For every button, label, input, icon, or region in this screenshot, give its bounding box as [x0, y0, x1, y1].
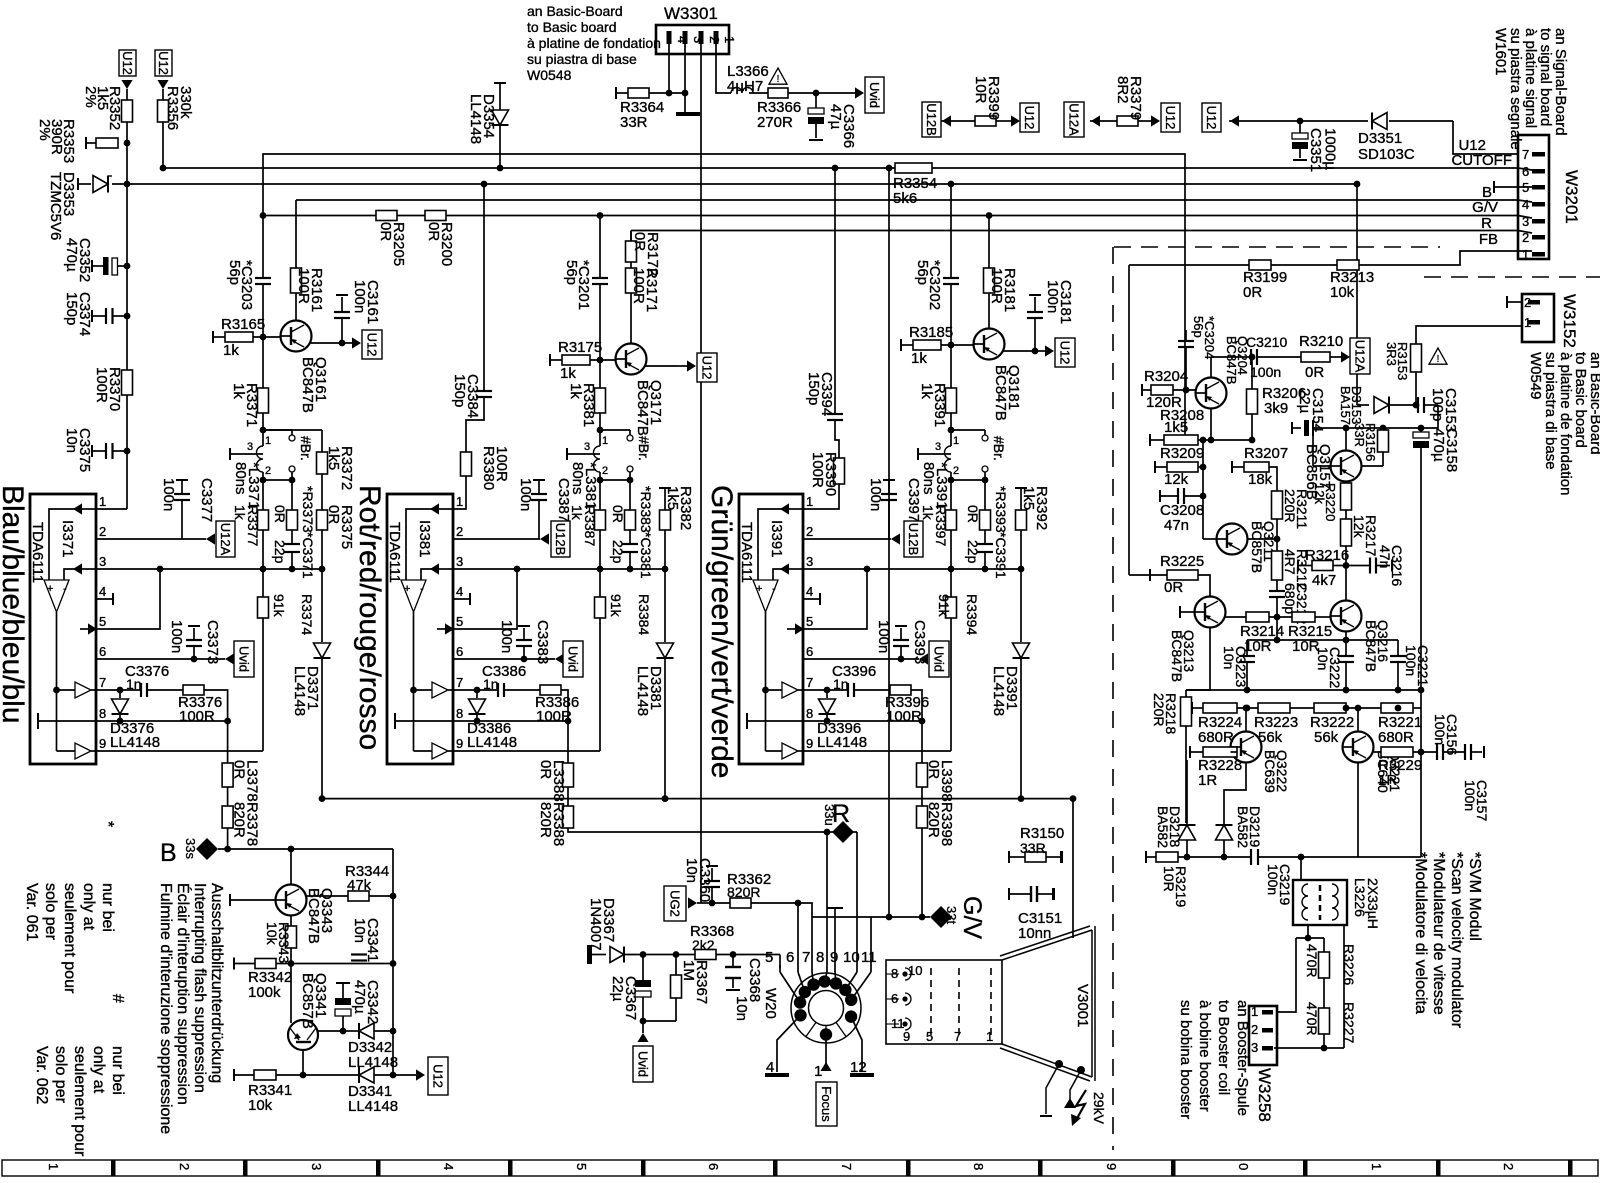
- wire pin7 green: [803, 689, 848, 691]
- wire G/V bus y215: [263, 215, 1518, 217]
- svg-text:100R: 100R: [809, 452, 826, 488]
- wire pin6 red: [453, 658, 555, 660]
- svg-text:100R: 100R: [988, 268, 1005, 304]
- wire Q3343 collector: [290, 849, 292, 885]
- svg-text:2: 2: [806, 524, 813, 539]
- wire D3353 left stub: [77, 178, 79, 190]
- svg-text:LL4148: LL4148: [817, 734, 867, 751]
- wire R3211 to Q3211 collector: [1276, 519, 1278, 551]
- wire pin9 blue: [96, 750, 263, 752]
- wire L3226 top lead: [1300, 857, 1302, 880]
- svg-text:R3175: R3175: [558, 339, 602, 356]
- capacitor C3377 100n: [181, 500, 183, 539]
- wire to CRT pin5: [779, 955, 781, 969]
- wire pin2 green: [803, 538, 891, 540]
- svg-text:47µ: 47µ: [827, 104, 844, 130]
- arrow to Uvid top: [855, 87, 864, 98]
- net label U12B green: [904, 521, 923, 557]
- svg-text:2: 2: [1251, 1022, 1258, 1037]
- wire pin3 node row green: [803, 568, 1021, 570]
- wire pin9 green: [803, 750, 951, 752]
- svg-text:10k: 10k: [1330, 284, 1355, 301]
- svg-text:C3397: C3397: [905, 478, 922, 522]
- resistor R3341 10k: [233, 1069, 235, 1081]
- wire L3378 column bottom: [227, 828, 229, 849]
- diode D3351 SD103C: [1371, 113, 1373, 130]
- resistor R3354 5k6 on CUTOFF bus: [895, 163, 932, 173]
- capacitor C3352 470u: [91, 260, 93, 272]
- node C3368: [730, 951, 737, 958]
- resistor R3384 91k: [599, 569, 601, 597]
- ruler separators: [111, 1160, 116, 1176]
- svg-text:R3384: R3384: [636, 594, 652, 635]
- svg-text:470µ: 470µ: [63, 238, 80, 272]
- wire x857 to CRT pin10: [856, 832, 858, 965]
- wire pin8 green: [803, 720, 922, 722]
- wire x1073 to CRT funnel: [1072, 799, 1074, 938]
- svg-text:su piastra di base: su piastra di base: [527, 51, 637, 67]
- svg-text:U12B: U12B: [906, 523, 921, 556]
- wire pin6 green: [803, 658, 919, 660]
- resistor R3373 0R: [291, 480, 293, 510]
- svg-text:LL4148: LL4148: [467, 94, 484, 144]
- capacitor C3397 100n: [888, 500, 890, 539]
- wire Q3157 collector top: [1345, 428, 1347, 451]
- svg-text:10: 10: [908, 963, 922, 978]
- svg-text:W3258: W3258: [1255, 1068, 1274, 1122]
- resistor R3224 680R: [1191, 702, 1193, 714]
- svg-text:U12A: U12A: [1353, 340, 1368, 373]
- svg-text:Focus: Focus: [819, 1086, 834, 1122]
- svg-text:Fulmine d'interuzione soppress: Fulmine d'interuzione soppressione: [157, 883, 174, 1134]
- svg-text:9: 9: [99, 736, 106, 751]
- capacitor C3393 100n: [898, 656, 905, 663]
- svg-text:nur bei: nur bei: [99, 883, 116, 932]
- svg-text:22µ: 22µ: [609, 976, 626, 1002]
- svg-text:1k: 1k: [560, 365, 576, 382]
- wire Q3222 emitter down: [1224, 763, 1246, 826]
- capacitor C3216 47n: [1346, 565, 1370, 567]
- svg-text:12k: 12k: [1312, 483, 1327, 504]
- resistor R3377 1k: [262, 480, 264, 510]
- svg-text:U12B: U12B: [553, 523, 568, 556]
- svg-text:0R: 0R: [1243, 284, 1262, 301]
- connector W3201: [1518, 135, 1549, 259]
- svg-text:seulement pour: seulement pour: [71, 1046, 88, 1157]
- svg-text:6: 6: [806, 644, 813, 659]
- resistor R3342 100k: [233, 958, 235, 970]
- transformer L3226 2X33uH: [1293, 880, 1347, 925]
- svg-text:8: 8: [971, 1163, 986, 1170]
- svg-text:10n: 10n: [1315, 647, 1331, 670]
- svg-text:10n: 10n: [63, 428, 80, 453]
- svg-text:*Modulatore di velocita: *Modulatore di velocita: [1412, 852, 1429, 1014]
- transistor Q3222 BC639: [1231, 732, 1262, 763]
- svg-text:47n: 47n: [1164, 517, 1189, 534]
- svg-text:2%: 2%: [36, 119, 53, 141]
- diode D3219 BA582: [1216, 824, 1233, 826]
- svg-text:100R: 100R: [886, 708, 922, 725]
- svg-text:1: 1: [806, 494, 813, 509]
- resistor R3150 33R: [1008, 851, 1010, 863]
- wire B diamond to right: [218, 848, 393, 850]
- svg-text:BA157: BA157: [1338, 386, 1353, 425]
- node x889/CUTOFF: [886, 165, 893, 172]
- svg-text:C3383: C3383: [534, 620, 551, 664]
- arrow UG2: [688, 897, 697, 908]
- arrow Uvid green: [919, 653, 928, 664]
- svg-text:C3377: C3377: [198, 478, 215, 522]
- IC block I3391 TDA6111 green: [739, 494, 803, 764]
- wire pin7 blue: [96, 689, 141, 691]
- node x163/y168: [160, 165, 167, 172]
- svg-text:Var. 061: Var. 061: [23, 883, 40, 942]
- svg-text:0R: 0R: [1305, 364, 1324, 381]
- svg-text:LL4148: LL4148: [110, 734, 160, 751]
- svg-text:R3210: R3210: [1299, 333, 1343, 350]
- arrow into U12B: [942, 115, 951, 126]
- svg-text:U12B: U12B: [924, 103, 939, 136]
- CRT socket spokes: [806, 1022, 816, 1036]
- resistor R3379 8R2: [1117, 116, 1138, 126]
- wire x127 to TDA pin1: [126, 122, 128, 370]
- svg-text:U12: U12: [120, 51, 135, 75]
- wire U12 col x127: [126, 89, 128, 100]
- svg-text:100R: 100R: [93, 367, 110, 403]
- wire red emitter: [645, 365, 677, 367]
- resistor R3211 220R: [1272, 491, 1283, 519]
- svg-text:-: -: [420, 583, 424, 595]
- svg-text:10R: 10R: [972, 76, 989, 104]
- svg-text:10n: 10n: [733, 996, 750, 1021]
- svg-text:CUTOFF: CUTOFF: [1451, 152, 1512, 169]
- wire pin9 lead up: [834, 908, 836, 965]
- power label U12 flash: [428, 1057, 448, 1095]
- svg-text:R3204: R3204: [1144, 368, 1188, 385]
- connector W3258: [1249, 1006, 1277, 1065]
- resistor R3375 0R: [321, 474, 323, 510]
- svg-text:5: 5: [765, 949, 773, 966]
- wire R3227 to pin3 line: [1323, 1034, 1325, 1048]
- svg-text:#Br.: #Br.: [991, 436, 1007, 461]
- svg-text:100n: 100n: [1462, 780, 1478, 811]
- wire R3210 arrow: [1330, 356, 1341, 358]
- svg-text:1: 1: [46, 1163, 61, 1170]
- wire x1357 down: [1356, 184, 1358, 405]
- net label U12B top: [922, 102, 941, 137]
- diamond node G/V: [930, 906, 952, 928]
- svg-text:3: 3: [935, 441, 941, 453]
- svg-text:0R: 0R: [610, 505, 626, 523]
- resistor R3397 1k: [950, 480, 952, 510]
- svg-text:TDA6111: TDA6111: [29, 522, 46, 583]
- CRT socket inner circle: [809, 991, 844, 1026]
- wire y405 D3153: [1357, 404, 1369, 406]
- wire R3208 row right: [1211, 439, 1252, 441]
- svg-text:680R: 680R: [1378, 729, 1414, 746]
- resistor R3394 91k: [950, 569, 952, 597]
- wire Q3204 collector: [1210, 357, 1212, 378]
- node R diamond: [824, 829, 831, 836]
- svg-text:9: 9: [1104, 1163, 1119, 1170]
- resistor R3156 33R: [1380, 425, 1387, 432]
- node C3158 top: [1418, 425, 1425, 432]
- wire D3351 to W3201 pin7: [1453, 121, 1518, 154]
- wire green cap column: [950, 284, 952, 345]
- wire pin6 lead up: [797, 903, 799, 965]
- svg-text:1N4007: 1N4007: [587, 898, 604, 951]
- resistor R3208 1k5: [1149, 434, 1151, 446]
- svg-text:2: 2: [953, 465, 959, 477]
- node green base: [948, 342, 955, 349]
- CRT pin12 lead: [851, 1017, 862, 1072]
- node blue base: [260, 334, 267, 341]
- transistor Q3181 BC847B: [974, 329, 1005, 360]
- capacitor C3374 150p: [91, 310, 93, 322]
- svg-text:*R3393: *R3393: [993, 486, 1009, 533]
- svg-text:100n: 100n: [1403, 645, 1419, 676]
- svg-text:1k: 1k: [567, 383, 584, 399]
- wire to coil blue: [262, 413, 264, 430]
- resistor R3172 0R: [626, 241, 637, 262]
- svg-text:W0549: W0549: [1527, 352, 1544, 400]
- inductor L3388 0R: [567, 721, 569, 763]
- wire Q3341 emitter right: [317, 1030, 342, 1032]
- svg-text:100n: 100n: [1432, 714, 1448, 745]
- svg-text:8: 8: [806, 706, 813, 721]
- node D3371 bottom: [319, 795, 326, 802]
- resistor R3393 0R: [984, 480, 986, 510]
- wire R3374 to pin9: [262, 618, 264, 751]
- dashed boundary y247: [1114, 246, 1440, 248]
- svg-text:22p: 22p: [610, 540, 626, 564]
- capacitor C3203 56p: [255, 277, 271, 279]
- resistor R3382 1k5: [659, 487, 671, 489]
- svg-text:#Br.: #Br.: [298, 436, 314, 461]
- wire blue cap column: [262, 284, 264, 337]
- svg-text:0R: 0R: [631, 232, 648, 251]
- resistor R3380 100R: [466, 397, 484, 452]
- warning triangle near R3366: [769, 68, 787, 84]
- svg-text:100k: 100k: [248, 984, 281, 1001]
- vertical x1203: [1202, 440, 1204, 539]
- svg-text:1: 1: [456, 494, 463, 509]
- svg-text:820R: 820R: [537, 802, 554, 838]
- svg-text:820R: 820R: [925, 802, 942, 838]
- svg-text:C3373: C3373: [204, 620, 221, 664]
- wire C3153 corner down: [1421, 405, 1438, 428]
- arrow into U12 box4: [1151, 115, 1160, 126]
- resistor R3204 120R: [1141, 384, 1143, 396]
- 29kV arrow: [1064, 1098, 1076, 1108]
- CRT pin4 lead: [777, 1015, 801, 1072]
- wire pin11 lead up: [870, 917, 872, 965]
- CRT pin1 lead: [825, 1035, 827, 1067]
- svg-text:5: 5: [574, 1163, 589, 1170]
- svg-text:R3225: R3225: [1160, 553, 1204, 570]
- power label U12 box 5: [1202, 103, 1221, 132]
- resistor R3370: [122, 370, 133, 395]
- stub W3201 pin5: [1493, 181, 1495, 193]
- svg-text:-: -: [772, 583, 776, 595]
- node pin4/R3364: [666, 90, 673, 97]
- svg-text:3: 3: [584, 441, 590, 453]
- arrow U12B green: [891, 533, 900, 544]
- svg-text:R3227: R3227: [1341, 1002, 1357, 1043]
- stub R3353 left: [85, 137, 87, 149]
- resistor R3209 12k: [1154, 461, 1156, 473]
- svg-text:*R3373: *R3373: [300, 486, 316, 533]
- wire pin5 green: [803, 569, 867, 629]
- svg-text:3: 3: [309, 1163, 324, 1170]
- node coil bottom blue: [260, 477, 267, 484]
- wire Q3343 emitter: [290, 916, 292, 927]
- wires I3381 internal: [430, 503, 439, 514]
- svg-text:R3207: R3207: [1244, 445, 1288, 462]
- zener D3353 TZMC5V6: [107, 176, 109, 193]
- resistor R3368 2k2: [695, 950, 716, 960]
- svg-text:3: 3: [247, 441, 253, 453]
- svg-text:LL4148: LL4148: [291, 666, 308, 716]
- W3201 pin bars and numbers: [1532, 152, 1545, 157]
- svg-text:150p: 150p: [63, 292, 80, 325]
- svg-text:10k: 10k: [248, 1097, 273, 1114]
- svg-text:*Scan velocity modulator: *Scan velocity modulator: [1448, 852, 1465, 1029]
- arrow into U12A: [1091, 115, 1100, 126]
- svg-text:1: 1: [953, 435, 959, 447]
- svg-text:100n: 100n: [351, 280, 368, 313]
- wires I3371 internal: [73, 503, 82, 514]
- svg-text:470µ: 470µ: [351, 980, 368, 1014]
- diode D3341 LL4148: [358, 1067, 360, 1083]
- svg-text:Uvid: Uvid: [566, 646, 581, 672]
- terminal bar left of D3367: [587, 945, 592, 964]
- net label Uvid bottom: [633, 1046, 653, 1082]
- svg-text:G/V: G/V: [958, 896, 986, 939]
- transistor Q3213 BC847B: [1195, 597, 1226, 628]
- svg-text:5k6: 5k6: [893, 190, 917, 207]
- resistor R3220 12k: [1345, 482, 1347, 484]
- node Q3343 collector: [288, 846, 295, 853]
- svg-text:7: 7: [954, 1029, 961, 1044]
- svg-text:3: 3: [456, 554, 463, 569]
- power label U12 box 3: [1020, 103, 1039, 132]
- wire x163: [162, 89, 164, 100]
- wire U12B-R3399: [951, 120, 975, 122]
- svg-text:an Basic-Board: an Basic-Board: [527, 3, 623, 19]
- svg-text:33R: 33R: [1352, 423, 1367, 447]
- net label U12A blue: [216, 521, 235, 557]
- wire W3301 pin1: [716, 44, 731, 93]
- svg-text:Uvid: Uvid: [237, 646, 252, 672]
- svg-text:-: -: [63, 583, 67, 595]
- svg-text:8: 8: [816, 949, 824, 966]
- wire x827 to CRT pin8: [826, 832, 828, 965]
- wire R3217 to R3216 row: [1345, 546, 1347, 598]
- svg-text:1n: 1n: [483, 676, 499, 692]
- wire R bus y231: [630, 231, 632, 253]
- resistor R3399 10R: [975, 116, 996, 126]
- electrolytic C3367 22u: [642, 955, 644, 981]
- svg-text:only at: only at: [80, 883, 97, 931]
- svg-text:1k5: 1k5: [664, 486, 681, 510]
- svg-text:I3381: I3381: [416, 520, 433, 558]
- capacitor C3371 22p: [291, 530, 293, 544]
- svg-text:1k: 1k: [230, 383, 247, 399]
- wire L3226 right coil down: [1343, 925, 1345, 1048]
- svg-text:1: 1: [1524, 315, 1531, 330]
- svg-text:!: !: [1437, 354, 1440, 365]
- power label U12 blue emitter: [362, 330, 382, 359]
- wire R3366 to Uvid: [788, 92, 855, 94]
- svg-text:1k5: 1k5: [1164, 419, 1188, 436]
- svg-text:2: 2: [707, 36, 722, 43]
- svg-text:C3387: C3387: [555, 478, 572, 522]
- warning triangle R3153: [1429, 348, 1447, 364]
- svg-text:LL4148: LL4148: [348, 1098, 398, 1115]
- svg-text:56p: 56p: [563, 260, 580, 285]
- capacitor C3396 1n: [847, 683, 849, 697]
- resistor R3219 10R: [1156, 852, 1178, 862]
- W3301 pin bars: [667, 31, 672, 44]
- svg-text:6: 6: [456, 644, 463, 659]
- capacitor C3204 56p: [1183, 387, 1190, 394]
- svg-text:U12: U12: [365, 333, 380, 357]
- dashed boundary y277: [1424, 276, 1600, 278]
- svg-text:1M: 1M: [680, 960, 697, 981]
- svg-text:0R: 0R: [272, 505, 288, 523]
- ground W3301 pin3: [676, 112, 700, 116]
- wire R3394 to pin9: [950, 618, 952, 751]
- svg-text:29kV: 29kV: [1091, 1092, 1107, 1125]
- svg-text:LL4148: LL4148: [634, 666, 651, 716]
- svg-text:12k: 12k: [1351, 515, 1367, 539]
- arrow U12A blue: [206, 533, 215, 544]
- arrow into U12 box3: [1011, 115, 1020, 126]
- svg-text:150p: 150p: [451, 374, 468, 407]
- svg-text:6: 6: [706, 1163, 721, 1170]
- svg-text:Blau/blue/bleu/blu: Blau/blue/bleu/blu: [0, 485, 29, 724]
- wire pin7 red: [453, 689, 498, 691]
- svg-text:+: +: [47, 583, 53, 595]
- svg-text:100R: 100R: [179, 708, 215, 725]
- node coil bottom red: [597, 477, 604, 484]
- resistor R3229 1R: [1374, 751, 1382, 753]
- resistor R3206 3k9: [1247, 389, 1258, 414]
- wire Q3216 collector: [1345, 598, 1347, 601]
- bridge contacts #Br green: [951, 429, 985, 431]
- net label Uvid red: [563, 641, 583, 677]
- wire W3258 pin3: [1274, 1047, 1344, 1049]
- svg-text:18k: 18k: [1248, 471, 1273, 488]
- wire Q3221 emitter down: [1357, 763, 1359, 858]
- node D3381 bottom: [662, 795, 669, 802]
- resistor R3388 820R: [567, 787, 569, 806]
- stub coil pin3 blue: [229, 448, 231, 460]
- svg-text:4R7: 4R7: [1282, 549, 1298, 575]
- resistor R3221 680R: [1346, 707, 1381, 709]
- node C3367 bottom: [640, 1018, 647, 1025]
- coil L3381 80ns: [599, 430, 601, 446]
- svg-text:1k: 1k: [918, 383, 935, 399]
- wire x1421 long vertical: [1420, 448, 1422, 857]
- wire green emitter: [1003, 350, 1035, 352]
- resistor R3175 1k: [549, 354, 551, 366]
- svg-text:9: 9: [830, 949, 838, 966]
- svg-text:9: 9: [456, 736, 463, 751]
- wire U12 to D3351: [1239, 120, 1368, 122]
- svg-text:Var. 062: Var. 062: [33, 1046, 50, 1105]
